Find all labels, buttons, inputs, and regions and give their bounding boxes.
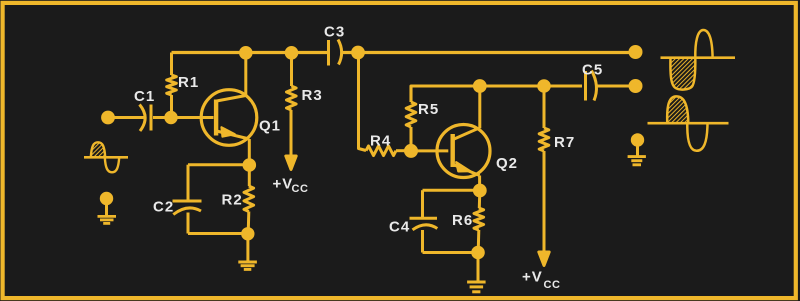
wire R7 to Vcc arrow: [543, 151, 546, 253]
input terminal dot: [103, 112, 114, 123]
wire Q2 collector to rail 2: [478, 86, 481, 128]
wire R1 to top rail: [170, 53, 173, 76]
resistor R2: [244, 186, 254, 212]
wire emitter junction to C2 branch: [188, 163, 249, 166]
wire R6 to bottom junction: [477, 230, 481, 253]
wire C1 to node A: [153, 116, 171, 119]
svg-text:CC: CC: [544, 279, 561, 291]
svg-text:R5: R5: [418, 101, 439, 118]
output ground: [628, 135, 646, 165]
svg-text:R3: R3: [302, 87, 323, 104]
wire C2 bottom to R2 bottom junction: [188, 232, 248, 235]
wire Q1 collector to rail: [244, 53, 247, 96]
transistor Q2: [437, 125, 490, 178]
node Q1 emitter junction: [244, 160, 255, 171]
wire C4 branch lower: [421, 230, 424, 253]
ground (stage 1): [238, 262, 257, 269]
wire C5 to output terminal (lower): [598, 85, 636, 88]
capacitor C3: [329, 40, 342, 66]
wire Q2 emitter down: [478, 176, 481, 191]
svg-text:C3: C3: [324, 24, 345, 41]
node A (C1/R1/Q1 base junction): [166, 112, 176, 122]
resistor R3: [287, 86, 297, 110]
output terminal dot (lower): [630, 81, 641, 92]
wire rail 2 to R7: [543, 86, 546, 128]
node Q1 collector / rail junction: [241, 48, 252, 59]
node R7 / rail 2 junction: [539, 81, 550, 92]
svg-text:C2: C2: [153, 199, 174, 216]
svg-text:R1: R1: [178, 74, 199, 91]
svg-text:C1: C1: [134, 88, 155, 105]
capacitor C2: [173, 201, 202, 215]
svg-text:R2: R2: [222, 192, 243, 209]
input ground: [98, 193, 117, 223]
wire node A to Q1 base: [171, 116, 214, 119]
Vcc arrow (stage 1): [286, 156, 296, 170]
wire R5 to rail 2: [411, 86, 582, 102]
capacitor C5: [586, 71, 597, 101]
wire C4 branch upper: [421, 190, 424, 218]
wire C2 branch lower: [187, 213, 190, 234]
wire emitter junction to R6: [478, 191, 482, 209]
wire R4 to node B: [396, 149, 411, 152]
wire C3 to output terminal (top rail right segment): [342, 51, 635, 54]
resistor R7: [539, 128, 549, 151]
node Q2 collector / rail 2 junction: [474, 81, 485, 92]
wire stage-2 feed vertical: [359, 53, 367, 151]
wire emitter junction to C4 branch: [423, 189, 480, 192]
svg-text:Q2: Q2: [496, 155, 518, 172]
output waveform (bottom, in phase): [648, 96, 729, 150]
node R6/C4 ground junction: [473, 247, 484, 258]
ground (stage 2): [467, 282, 486, 292]
wire C2 branch upper: [187, 165, 190, 201]
wire emitter junction to R2: [248, 165, 251, 186]
svg-text:R4: R4: [370, 133, 391, 150]
resistor R4: [366, 146, 396, 156]
output terminal dot (top): [630, 47, 641, 58]
wire rail to R3: [290, 53, 293, 86]
output waveform (top, inverted): [661, 30, 736, 90]
node R2/C2 ground junction: [243, 229, 253, 239]
svg-text:R7: R7: [554, 134, 575, 151]
wire input to C1: [108, 116, 144, 119]
svg-text:+V: +V: [273, 176, 294, 193]
svg-text:+V: +V: [522, 269, 543, 286]
wire Q1 emitter down: [248, 139, 251, 166]
wire top rail (left segment to C3): [172, 51, 328, 54]
resistor R6: [474, 208, 484, 230]
svg-text:C4: C4: [389, 219, 410, 236]
wire junction to ground: [246, 234, 249, 262]
resistor R5: [406, 102, 416, 127]
svg-text:CC: CC: [292, 183, 309, 195]
node Q2 emitter junction: [474, 185, 485, 196]
node R3 / rail junction: [286, 48, 297, 59]
svg-text:C5: C5: [582, 62, 603, 79]
wire node B to Q2 base: [411, 149, 448, 152]
wire C4 bottom to R6 bottom junction: [423, 251, 479, 254]
svg-text:R6: R6: [452, 212, 473, 229]
Vcc arrow (stage 2): [539, 252, 549, 266]
wire R3 to Vcc arrow: [290, 110, 293, 157]
node stage-2 feed junction: [353, 47, 364, 58]
capacitor C4: [410, 218, 438, 230]
svg-text:Q1: Q1: [259, 118, 281, 135]
capacitor C1: [140, 105, 152, 132]
node B (R4/R5/Q2 base junction): [406, 145, 417, 156]
wire R2 to bottom junction: [247, 212, 251, 234]
wire node B up to R5: [410, 127, 413, 151]
wire node A up to R1: [170, 95, 173, 118]
transistor Q1: [201, 90, 257, 146]
resistor R1: [167, 75, 177, 95]
input signal waveform: [84, 142, 128, 172]
wire junction to ground: [477, 253, 480, 283]
